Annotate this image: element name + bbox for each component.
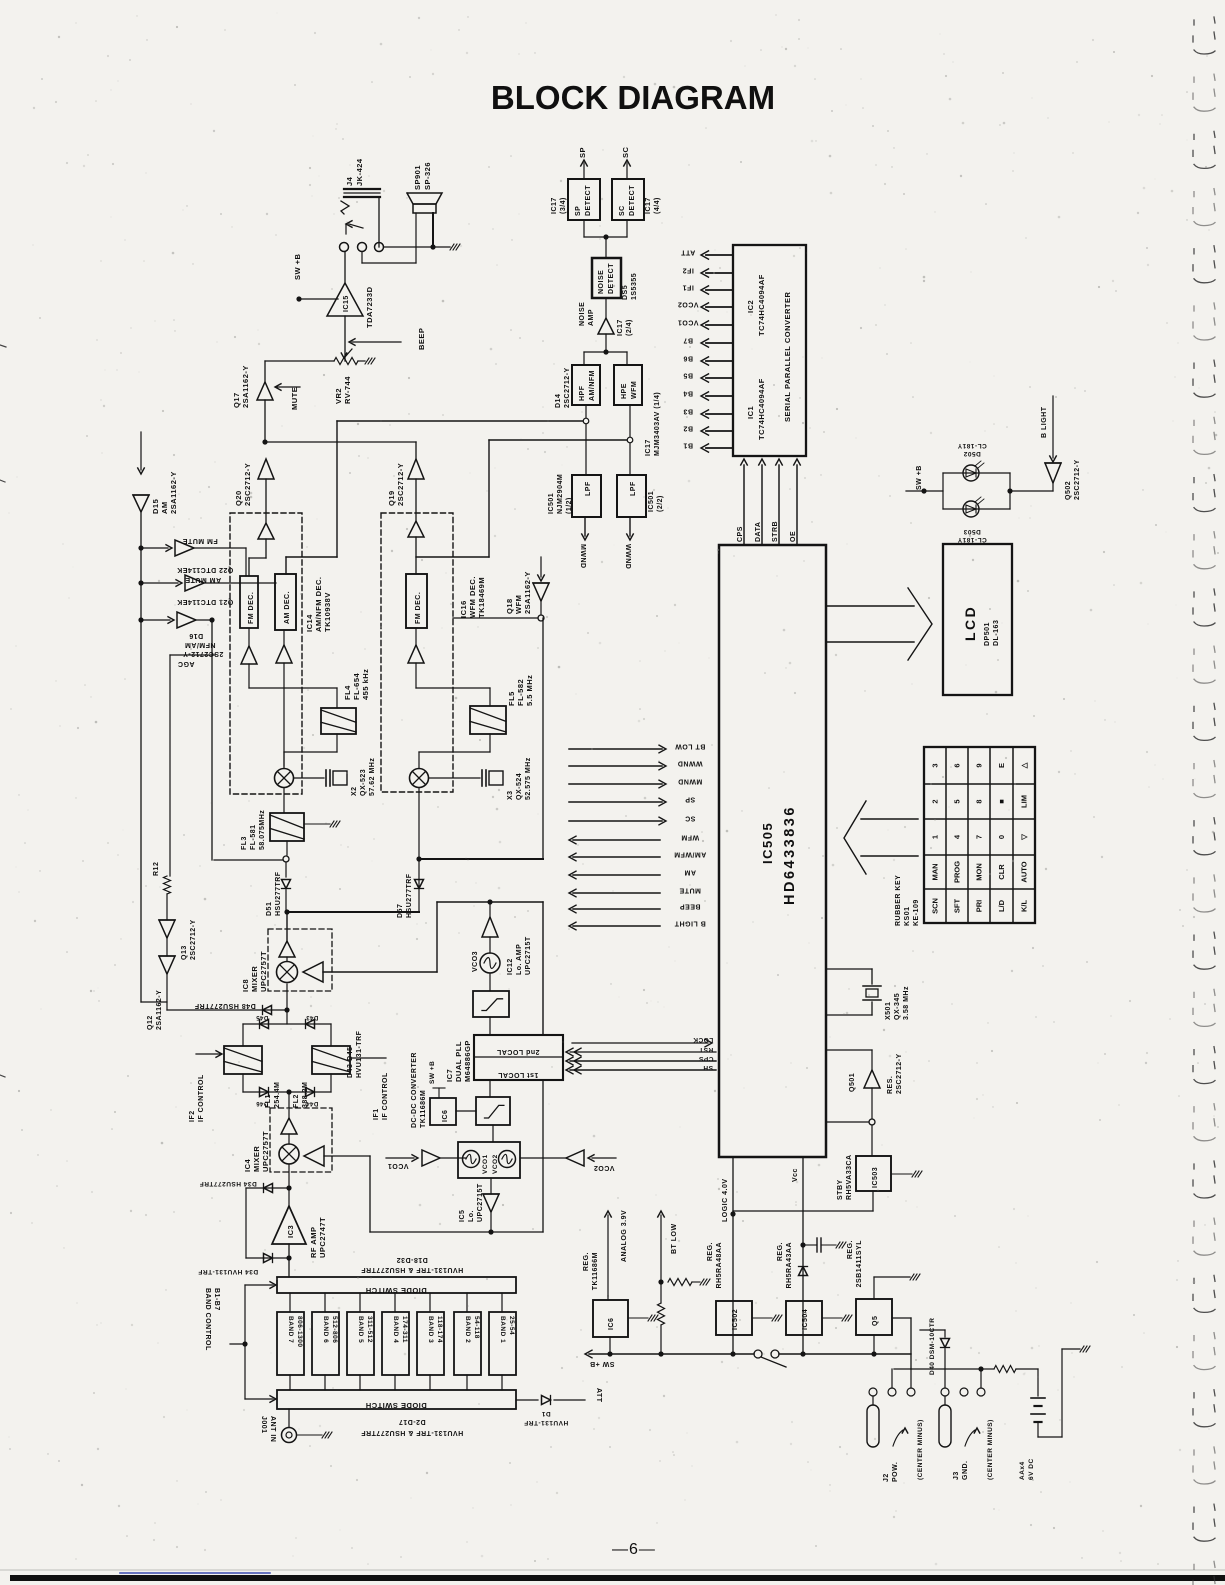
svg-text:D2-D17: D2-D17 bbox=[398, 1418, 425, 1425]
svg-text:LOGIC 4.0V: LOGIC 4.0V bbox=[722, 1178, 729, 1222]
node mix junction bbox=[284, 909, 289, 914]
block HPF AM/NFM D14 2SC2712-Y bbox=[572, 365, 600, 405]
svg-text:X2: X2 bbox=[351, 786, 358, 796]
node MWND out bbox=[584, 517, 586, 536]
block PLL loop filter 1 bbox=[473, 991, 509, 1017]
svg-text:J2: J2 bbox=[883, 1473, 890, 1482]
block LCD DP501 DL-163 bbox=[943, 544, 1012, 695]
svg-text:D48 HSU277TRF: D48 HSU277TRF bbox=[194, 1002, 256, 1009]
block AM DEC in IC14 bbox=[275, 574, 296, 630]
svg-text:2SC2712-Y: 2SC2712-Y bbox=[564, 367, 571, 408]
svg-text:(4/4): (4/4) bbox=[654, 197, 661, 214]
diode D44 bbox=[306, 1088, 315, 1097]
svg-text:RF AMP: RF AMP bbox=[309, 1227, 318, 1258]
svg-text:IC503: IC503 bbox=[872, 1167, 879, 1188]
block IC7 DUAL PLL M64886GP bbox=[474, 1035, 563, 1080]
svg-text:WFM: WFM bbox=[681, 834, 699, 841]
svg-text:2SC2712-Y: 2SC2712-Y bbox=[183, 650, 224, 657]
svg-text:CL-181Y: CL-181Y bbox=[957, 536, 987, 543]
svg-text:LIM: LIM bbox=[1020, 795, 1029, 808]
svg-text:NFM/AM: NFM/AM bbox=[185, 641, 216, 648]
svg-text:(2/4): (2/4) bbox=[626, 319, 633, 336]
svg-text:AM DEC.: AM DEC. bbox=[284, 591, 291, 624]
svg-text:TC74HC4094AF: TC74HC4094AF bbox=[757, 274, 766, 336]
svg-text:ATT: ATT bbox=[680, 249, 695, 256]
switch S1 power bbox=[754, 1350, 762, 1358]
node BEEP bbox=[573, 908, 660, 910]
svg-text:(CENTER MINUS): (CENTER MINUS) bbox=[917, 1419, 924, 1480]
svg-text:X501: X501 bbox=[885, 1002, 892, 1020]
svg-text:Q502: Q502 bbox=[1065, 481, 1072, 500]
wire FL outputs bbox=[242, 1074, 244, 1092]
svg-text:B6: B6 bbox=[683, 355, 693, 362]
node CPS bbox=[743, 465, 745, 545]
svg-text:9: 9 bbox=[975, 763, 984, 767]
node ANALOG 3.9V bbox=[607, 1215, 609, 1296]
svg-text:54-118: 54-118 bbox=[473, 1316, 480, 1339]
wire speaker to jack common bbox=[384, 246, 450, 248]
buffer LO in IC8 bbox=[303, 962, 323, 982]
svg-text:HSU277TRF: HSU277TRF bbox=[406, 873, 413, 918]
block REG IC6 TK11686M bbox=[593, 1300, 628, 1337]
center minus arrow J3 bbox=[965, 1430, 975, 1446]
svg-text:BAND CONTROL: BAND CONTROL bbox=[204, 1288, 211, 1351]
block FM DEC in IC14 bbox=[240, 576, 258, 628]
wire HPE out bbox=[629, 405, 631, 437]
transistor Q13 2SC2712-Y bbox=[166, 894, 168, 920]
svg-text:IF CONTROL: IF CONTROL bbox=[382, 1072, 389, 1120]
svg-text:(2/2): (2/2) bbox=[657, 495, 664, 512]
wire IC5 out to IC4 LO bbox=[490, 1212, 492, 1232]
svg-text:DC-DC CONVERTER: DC-DC CONVERTER bbox=[411, 1052, 418, 1128]
svg-text:CPS: CPS bbox=[737, 526, 744, 542]
wire AM DEC1 to mixer bbox=[283, 663, 285, 766]
svg-text:BT LOW: BT LOW bbox=[675, 743, 706, 750]
svg-text:FL5: FL5 bbox=[507, 691, 516, 706]
buffer amp in IC14 bbox=[258, 523, 274, 539]
svg-text:2SA1162-Y: 2SA1162-Y bbox=[241, 365, 250, 408]
svg-text:1st LOCAL: 1st LOCAL bbox=[497, 1071, 538, 1078]
svg-text:SP: SP bbox=[575, 206, 582, 216]
op-amp IC12 Lo AMP UPC2715T bbox=[489, 902, 491, 917]
svg-text:IC501: IC501 bbox=[648, 491, 655, 512]
buffer amp in IC16 bbox=[408, 521, 424, 537]
svg-text:WFM: WFM bbox=[631, 381, 638, 399]
svg-text:BAND 5: BAND 5 bbox=[357, 1316, 364, 1343]
svg-text:AM/NFM: AM/NFM bbox=[589, 370, 596, 401]
wire left bus join bbox=[141, 1001, 167, 1003]
wire NFM bus down bbox=[211, 620, 213, 860]
svg-text:HVU131-TRF: HVU131-TRF bbox=[524, 1419, 568, 1426]
op-amp IC15 TDA7233D audio amp bbox=[327, 283, 363, 316]
binding marks right edge bbox=[1193, 17, 1215, 54]
svg-text:RV-744: RV-744 bbox=[343, 376, 352, 404]
svg-text:DETECT: DETECT bbox=[585, 185, 592, 216]
block IC503 STBY RH5VA33CA bbox=[856, 1156, 891, 1191]
svg-text:806-1300: 806-1300 bbox=[296, 1316, 303, 1347]
crystal X2 QX-523 57.62MHz bbox=[294, 777, 324, 779]
svg-text:RH5VA33CA: RH5VA33CA bbox=[846, 1154, 853, 1200]
op-amp NOISE AMP IC17 2/4 bbox=[605, 298, 607, 318]
svg-text:MUTE: MUTE bbox=[679, 887, 701, 894]
svg-text:D34 HSU277TRF: D34 HSU277TRF bbox=[199, 1180, 256, 1187]
svg-text:D45: D45 bbox=[256, 1014, 269, 1020]
diode D43 bbox=[306, 1020, 315, 1029]
svg-text:D503: D503 bbox=[963, 528, 981, 535]
svg-text:PRI: PRI bbox=[975, 900, 984, 913]
svg-text:52.575 MHz: 52.575 MHz bbox=[525, 757, 532, 800]
svg-text:IC4: IC4 bbox=[243, 1159, 252, 1173]
svg-text:D16: D16 bbox=[189, 632, 203, 639]
svg-text:Q22 DTC114EK: Q22 DTC114EK bbox=[177, 566, 234, 573]
svg-text:Q21 DTC114EK: Q21 DTC114EK bbox=[177, 598, 234, 605]
wire Q5 out bbox=[892, 1317, 911, 1319]
wire AM audio line A bbox=[583, 418, 589, 424]
svg-text:VCO3: VCO3 bbox=[472, 951, 479, 972]
svg-text:IC17: IC17 bbox=[551, 197, 558, 214]
wire mixer1 to FL3 bbox=[283, 788, 285, 813]
svg-text:RUBBER KEY: RUBBER KEY bbox=[895, 875, 902, 926]
svg-text:5.5 MHz: 5.5 MHz bbox=[525, 675, 534, 706]
svg-text:STBY: STBY bbox=[837, 1179, 844, 1200]
node B6 bbox=[706, 360, 733, 362]
svg-text:AGC: AGC bbox=[177, 660, 194, 667]
svg-text:VCO2: VCO2 bbox=[492, 1154, 499, 1174]
svg-text:▽: ▽ bbox=[1020, 833, 1029, 841]
node IF1 bbox=[706, 289, 733, 291]
svg-text:174-311: 174-311 bbox=[401, 1316, 408, 1343]
oscillator VCO3 bbox=[489, 937, 491, 953]
svg-text:311-512: 311-512 bbox=[366, 1316, 373, 1343]
svg-text:SCN: SCN bbox=[931, 898, 940, 914]
svg-text:HVU131-TRF & HSU277TRF: HVU131-TRF & HSU277TRF bbox=[361, 1429, 464, 1436]
svg-text:SW +B: SW +B bbox=[590, 1360, 615, 1367]
svg-text:HSU277TRF: HSU277TRF bbox=[275, 871, 282, 916]
block BAND 3 118-174 bbox=[417, 1312, 444, 1375]
svg-text:2SB1411SYL: 2SB1411SYL bbox=[856, 1240, 863, 1288]
diode on Vcc rail bbox=[799, 1267, 808, 1276]
block diode switch upper bbox=[277, 1277, 516, 1293]
block REG IC504 RH5RA43AA bbox=[786, 1301, 822, 1335]
svg-text:2SC2712-Y: 2SC2712-Y bbox=[243, 463, 252, 506]
svg-text:STRB: STRB bbox=[772, 521, 779, 542]
svg-text:HPF: HPF bbox=[579, 385, 586, 401]
svg-text:L/D: L/D bbox=[997, 899, 1006, 912]
svg-text:WFM DEC.: WFM DEC. bbox=[468, 576, 477, 618]
svg-text:BT LOW: BT LOW bbox=[671, 1223, 678, 1254]
speaker SP901 SP-326 bbox=[407, 193, 442, 204]
node VCO2 bbox=[706, 306, 733, 308]
svg-text:R12: R12 bbox=[153, 862, 160, 876]
svg-text:BAND 3: BAND 3 bbox=[427, 1316, 434, 1343]
svg-text:MIXER: MIXER bbox=[250, 966, 259, 992]
svg-text:NJM2904M: NJM2904M bbox=[557, 474, 564, 514]
svg-text:TC74HC4094AF: TC74HC4094AF bbox=[757, 378, 766, 440]
svg-text:IC17: IC17 bbox=[645, 439, 652, 456]
svg-text:IF1: IF1 bbox=[373, 1108, 380, 1120]
svg-text:D14: D14 bbox=[555, 394, 562, 408]
svg-text:B5: B5 bbox=[683, 372, 693, 379]
svg-text:ATT: ATT bbox=[595, 1388, 602, 1403]
jack J3 GND contacts bbox=[941, 1388, 949, 1396]
wire mixer3 to IF filters bbox=[286, 984, 288, 1024]
big arrow keypad to IC505 bbox=[861, 818, 918, 820]
svg-text:(1/2): (1/2) bbox=[566, 497, 573, 514]
svg-text:FM DEC.: FM DEC. bbox=[248, 592, 255, 624]
svg-text:2: 2 bbox=[931, 799, 940, 803]
svg-text:Q18: Q18 bbox=[505, 598, 514, 614]
svg-text:HPE: HPE bbox=[621, 383, 628, 399]
block DC-DC converter IC6 TK11686M bbox=[430, 1098, 456, 1125]
svg-text:MAN: MAN bbox=[931, 863, 940, 880]
svg-text:Q5: Q5 bbox=[872, 1316, 879, 1326]
wire HPF out bbox=[585, 405, 587, 418]
svg-text:(CENTER MINUS): (CENTER MINUS) bbox=[987, 1419, 994, 1480]
svg-text:MIXER: MIXER bbox=[252, 1146, 261, 1172]
node AM/WFM bbox=[573, 856, 660, 858]
transistor Q17 2SA1162-Y bbox=[264, 361, 266, 382]
buffer amps below decoders bbox=[241, 646, 257, 664]
svg-text:K/L: K/L bbox=[1020, 900, 1029, 913]
resistor BT LOW divider bbox=[660, 1282, 662, 1303]
svg-text:J4: J4 bbox=[345, 176, 354, 186]
svg-text:WWND: WWND bbox=[624, 544, 631, 569]
svg-text:LCD: LCD bbox=[962, 605, 978, 641]
wire FM DEC1 to FL4 bbox=[248, 664, 250, 688]
svg-text:JK-424: JK-424 bbox=[355, 158, 364, 186]
svg-text:1: 1 bbox=[931, 835, 940, 839]
diode D48 HSU277TRF bbox=[167, 1009, 287, 1011]
svg-text:D18-D32: D18-D32 bbox=[396, 1256, 428, 1263]
diode D45 bbox=[260, 1020, 269, 1029]
jack J4 JK-424 bbox=[344, 188, 380, 190]
svg-text:IC8: IC8 bbox=[241, 979, 250, 992]
block REG Q5 2SB1411SYL bbox=[856, 1299, 892, 1335]
antenna jack J001 ANT IN bbox=[288, 1409, 290, 1427]
node OE bbox=[796, 465, 798, 545]
potentiometer VR2 RV-744 bbox=[265, 360, 334, 362]
wire jack tip to amp bbox=[361, 252, 363, 263]
svg-text:VCO2: VCO2 bbox=[677, 301, 698, 308]
svg-text:IC505: IC505 bbox=[760, 822, 775, 864]
filter FL5 FL-582 5.5MHz bbox=[470, 706, 506, 734]
svg-text:MJM3403AV (1/4): MJM3403AV (1/4) bbox=[654, 392, 661, 456]
block BAND 4 174-311 bbox=[382, 1312, 409, 1375]
svg-text:ANT IN: ANT IN bbox=[269, 1416, 276, 1442]
filter FL4 FL-654 455kHz bbox=[321, 708, 356, 734]
svg-text:IF2: IF2 bbox=[189, 1110, 196, 1122]
svg-text:254.4M: 254.4M bbox=[274, 1082, 281, 1108]
svg-text:TK11686M: TK11686M bbox=[420, 1090, 427, 1128]
svg-text:IC14: IC14 bbox=[305, 614, 314, 632]
node B3 bbox=[706, 413, 733, 415]
buffer VCO1 select bbox=[386, 1157, 414, 1159]
wire Q5 base bbox=[873, 1277, 875, 1299]
svg-text:DETECT: DETECT bbox=[608, 263, 615, 294]
buffer in IC8 bbox=[286, 912, 288, 941]
node B2 bbox=[706, 430, 733, 432]
mixer MIX1 in IC14 bbox=[275, 769, 294, 788]
wire amp input bbox=[344, 316, 346, 361]
svg-text:UPC2757T: UPC2757T bbox=[259, 951, 268, 992]
svg-text:25-54: 25-54 bbox=[508, 1316, 515, 1335]
svg-text:TK11686M: TK11686M bbox=[592, 1252, 599, 1290]
IC8 MIXER UPC2757T dashed box bbox=[268, 929, 332, 991]
svg-text:FL-654: FL-654 bbox=[352, 672, 361, 700]
svg-text:LOCK: LOCK bbox=[693, 1036, 713, 1043]
jack contacts bbox=[340, 243, 349, 252]
node IF1 IF CONTROL bbox=[350, 1057, 386, 1059]
block FM DEC in IC16 bbox=[406, 574, 427, 628]
transistor Q19 2SC2712-Y bbox=[408, 459, 424, 479]
transistor Q12 2SA1162-Y bbox=[166, 938, 168, 956]
svg-text:SW +B: SW +B bbox=[293, 253, 302, 280]
svg-text:TDA7233D: TDA7233D bbox=[365, 286, 374, 328]
svg-text:IC2: IC2 bbox=[746, 300, 755, 313]
svg-text:AM: AM bbox=[160, 501, 169, 514]
block PLL loop filter 2 bbox=[476, 1097, 510, 1125]
svg-text:SFT: SFT bbox=[953, 899, 962, 914]
svg-text:SP: SP bbox=[578, 147, 587, 158]
wire Q20 to decoder bbox=[265, 479, 267, 523]
svg-text:D46: D46 bbox=[256, 1100, 269, 1106]
svg-text:VR2: VR2 bbox=[334, 388, 343, 404]
svg-text:IC6: IC6 bbox=[442, 1110, 449, 1122]
wire IC7 to loop filter 2 bbox=[489, 1080, 491, 1097]
svg-text:IC17: IC17 bbox=[645, 197, 652, 214]
node BT LOW bbox=[660, 1215, 662, 1282]
op-amp IC5 Lo AMP UPC2715T bbox=[490, 1178, 492, 1194]
svg-text:8: 8 bbox=[975, 799, 984, 803]
diode D51 HSU277TRF bbox=[285, 862, 287, 877]
svg-text:SC: SC bbox=[685, 815, 696, 822]
svg-text:SW +B: SW +B bbox=[916, 465, 923, 490]
block diode switch lower bbox=[277, 1390, 516, 1409]
node SP bbox=[569, 801, 662, 803]
node RST bbox=[570, 1051, 716, 1053]
svg-text:B2: B2 bbox=[683, 425, 693, 432]
svg-text:CL-181Y: CL-181Y bbox=[957, 442, 987, 449]
svg-text:DIODE SWITCH: DIODE SWITCH bbox=[365, 1401, 426, 1410]
node STRB bbox=[778, 465, 780, 545]
transistor Q22 DTC114EK AM MUTE bbox=[141, 582, 178, 584]
node B1 bbox=[706, 447, 733, 449]
svg-text:BLOCK DIAGRAM: BLOCK DIAGRAM bbox=[491, 79, 775, 116]
svg-text:AM: AM bbox=[684, 869, 696, 876]
svg-text:2SA1162-Y: 2SA1162-Y bbox=[523, 571, 532, 614]
wire Q19 to decoder bbox=[415, 479, 417, 521]
wire mixer2 down bbox=[418, 788, 420, 912]
battery BT1 AAx4 6V DC bbox=[1031, 1397, 1045, 1399]
svg-text:DP501: DP501 bbox=[984, 622, 991, 646]
svg-text:HD6433836: HD6433836 bbox=[782, 805, 798, 905]
svg-text:(3/4): (3/4) bbox=[560, 197, 567, 214]
wire WFM audio line B bbox=[627, 437, 633, 443]
svg-text:CPS: CPS bbox=[698, 1055, 713, 1062]
node BT LOW bbox=[569, 748, 662, 750]
svg-text:QX-524: QX-524 bbox=[516, 773, 523, 800]
IC4 MIXER UPC2757T dashed box bbox=[270, 1108, 332, 1172]
node SH bbox=[570, 1069, 716, 1071]
svg-text:2nd LOCAL: 2nd LOCAL bbox=[496, 1048, 539, 1055]
svg-text:REG.: REG. bbox=[847, 1240, 854, 1259]
svg-text:VCO1: VCO1 bbox=[387, 1162, 408, 1169]
svg-text:SH: SH bbox=[703, 1064, 713, 1071]
svg-text:RH5RA43AA: RH5RA43AA bbox=[786, 1242, 793, 1289]
wire FL4 out bbox=[336, 734, 338, 752]
node ATT bbox=[706, 254, 733, 256]
svg-text:AM/NFM DEC.: AM/NFM DEC. bbox=[314, 577, 323, 633]
svg-text:BAND 7: BAND 7 bbox=[287, 1316, 294, 1343]
svg-text:DS5: DS5 bbox=[622, 285, 629, 300]
svg-text:IC12: IC12 bbox=[507, 958, 514, 975]
block rubber key KS01 KE-109 matrix bbox=[924, 747, 1035, 923]
svg-text:B LIGHT: B LIGHT bbox=[1041, 406, 1048, 438]
transistor D15 AM 2SA1162-Y bbox=[140, 432, 142, 470]
svg-text:57.62 MHz: 57.62 MHz bbox=[369, 758, 376, 796]
svg-text:MUTE: MUTE bbox=[290, 387, 299, 410]
diode D46 bbox=[260, 1088, 269, 1097]
transistor Q18 WFM 2SA1162-Y bbox=[540, 557, 542, 577]
svg-text:BAND 6: BAND 6 bbox=[322, 1316, 329, 1343]
svg-text:B1-B7: B1-B7 bbox=[213, 1288, 220, 1311]
wire noise amp in bbox=[605, 334, 607, 352]
node CPS2 bbox=[570, 1060, 716, 1062]
diode D40 DSM-10CTR bbox=[920, 1329, 945, 1331]
svg-text:D502: D502 bbox=[963, 450, 981, 457]
block LPF IC501 2/2 bbox=[617, 475, 646, 517]
svg-text:3: 3 bbox=[931, 763, 940, 767]
wire FM DEC2 to FL5 bbox=[415, 663, 417, 688]
svg-text:—6—: —6— bbox=[612, 1541, 656, 1558]
svg-text:SERIAL PARALLEL CONVERTER: SERIAL PARALLEL CONVERTER bbox=[783, 291, 792, 422]
svg-text:VCO2: VCO2 bbox=[593, 1164, 614, 1171]
wire VCO3 LO bbox=[323, 971, 437, 973]
svg-text:GND.: GND. bbox=[962, 1461, 969, 1481]
node VCO1 bbox=[706, 324, 733, 326]
svg-text:2SA1162-Y: 2SA1162-Y bbox=[156, 990, 163, 1030]
svg-text:UPC2747T: UPC2747T bbox=[318, 1217, 327, 1258]
wire Vcc rail bbox=[802, 1157, 804, 1354]
svg-text:B4: B4 bbox=[683, 390, 693, 397]
svg-text:UPC2757T: UPC2757T bbox=[261, 1131, 270, 1172]
svg-text:RES.: RES. bbox=[887, 1076, 894, 1094]
block NOISE DETECT DS5 1S5355 bbox=[592, 258, 621, 298]
svg-text:ANALOG 3.9V: ANALOG 3.9V bbox=[621, 1210, 628, 1262]
node SC bbox=[569, 820, 662, 822]
svg-text:IC15: IC15 bbox=[343, 295, 350, 312]
svg-text:Q19: Q19 bbox=[387, 490, 396, 506]
node MUTE bbox=[573, 892, 660, 894]
node MUTE bbox=[276, 386, 300, 388]
svg-text:118-174: 118-174 bbox=[436, 1316, 443, 1343]
svg-text:PROG: PROG bbox=[953, 861, 962, 883]
svg-text:4: 4 bbox=[953, 834, 962, 839]
block SP DETECT IC17 3/4 bbox=[568, 179, 600, 220]
svg-text:7: 7 bbox=[975, 835, 984, 839]
svg-text:2SC2712-Y: 2SC2712-Y bbox=[896, 1053, 903, 1094]
diode D34 HSU277TRF bypass bbox=[246, 1187, 289, 1189]
battery wiring bbox=[894, 1368, 981, 1370]
svg-text:D15: D15 bbox=[151, 499, 160, 514]
svg-text:Q501: Q501 bbox=[849, 1073, 856, 1092]
node WWND out bbox=[629, 517, 631, 536]
diode D34b HVU131-TRF bbox=[246, 1257, 289, 1259]
svg-text:D51: D51 bbox=[266, 902, 273, 916]
svg-text:E: E bbox=[997, 763, 1006, 768]
wire LOGIC 4.0V rail bbox=[732, 1157, 734, 1354]
node IF2 bbox=[706, 272, 733, 274]
